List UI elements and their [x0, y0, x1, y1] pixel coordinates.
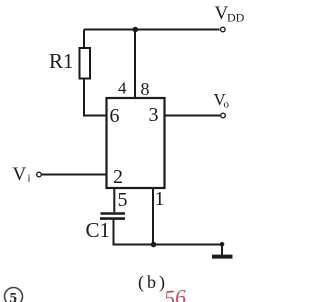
svg-text:C1: C1: [86, 218, 111, 242]
node junction at ground rail: [151, 242, 157, 248]
wire pin 3 to Vo: [165, 115, 221, 117]
svg-text:2: 2: [113, 166, 123, 188]
svg-text:1: 1: [155, 188, 165, 210]
page number badge 5: [5, 288, 23, 302]
svg-text:6: 6: [110, 105, 120, 127]
terminal VDD: [221, 27, 226, 32]
terminal Vi: [37, 172, 42, 177]
wire VDD rail: [84, 29, 220, 31]
svg-text:5: 5: [118, 189, 128, 211]
capacitor C1: [100, 214, 125, 219]
ground: [221, 245, 223, 255]
wire C1 bottom to ground rail: [114, 220, 223, 245]
svg-text:56: 56: [163, 284, 187, 302]
wire pin 1 down: [152, 188, 154, 245]
wire pin 5 to C1: [113, 188, 115, 212]
wire Vi to pin 2: [42, 174, 107, 176]
wire R1 bottom to pin 6: [84, 79, 107, 116]
svg-text:8: 8: [141, 79, 150, 99]
terminal Vo: [221, 113, 226, 118]
wire junction to pin 8: [134, 30, 136, 99]
resistor R1: [80, 48, 91, 79]
svg-text:4: 4: [118, 79, 127, 98]
node at ground stem: [220, 242, 225, 247]
svg-text:o: o: [224, 99, 230, 111]
svg-text:R1: R1: [49, 49, 74, 73]
svg-text:i: i: [28, 173, 31, 185]
svg-text:DD: DD: [227, 11, 245, 25]
node junction at VDD rail: [133, 27, 139, 33]
op-amp U1 (timer IC body): [107, 98, 165, 188]
wire R1 top: [83, 30, 85, 49]
svg-text:5: 5: [10, 291, 18, 302]
svg-text:3: 3: [149, 104, 159, 126]
svg-text:V: V: [13, 164, 27, 185]
